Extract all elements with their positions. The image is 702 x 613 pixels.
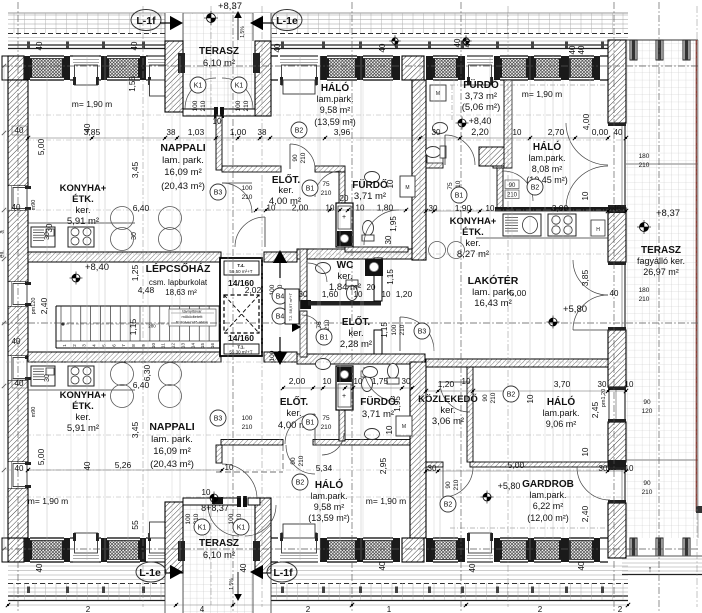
partition walls upper apartment A	[216, 80, 426, 260]
svg-text:3,71 m²: 3,71 m²	[362, 409, 394, 420]
svg-text:+8,40: +8,40	[85, 262, 109, 273]
svg-text:10: 10	[625, 464, 634, 473]
wall south (left section)	[8, 533, 172, 562]
wall north (left section)	[8, 56, 172, 85]
corridor arrows	[273, 250, 301, 365]
svg-text:14: 14	[190, 343, 195, 349]
svg-text:4: 4	[200, 605, 205, 613]
bottom eaves band	[8, 566, 628, 601]
svg-text:180: 180	[639, 287, 650, 294]
svg-text:2,02: 2,02	[245, 285, 262, 295]
elevator shaft	[220, 258, 262, 356]
bottom dim numbers	[6, 603, 630, 613]
terrace top-center floor	[183, 14, 255, 109]
svg-text:+8,37: +8,37	[656, 208, 680, 219]
svg-text:pm120: pm120	[31, 298, 37, 315]
wall east	[608, 40, 626, 558]
svg-text:75: 75	[322, 415, 330, 422]
svg-text:16: 16	[210, 343, 215, 349]
svg-text:1,95: 1,95	[393, 396, 402, 412]
svg-text:210: 210	[242, 194, 253, 201]
reference circles	[190, 77, 543, 535]
svg-text:B1: B1	[455, 193, 464, 200]
svg-text:1,25: 1,25	[130, 264, 140, 281]
svg-text:38: 38	[167, 128, 176, 137]
terrace top walls	[165, 13, 271, 118]
svg-text:lam. park.: lam. park.	[162, 155, 204, 166]
svg-text:2: 2	[306, 605, 311, 613]
svg-text:2: 2	[86, 605, 91, 613]
kitchen upper-left	[28, 207, 182, 251]
svg-text:75: 75	[316, 321, 323, 329]
svg-text:fagyálló ker.: fagyálló ker.	[637, 256, 685, 266]
svg-text:30: 30	[598, 380, 607, 389]
svg-text:16,09 m²: 16,09 m²	[164, 167, 202, 178]
svg-text:5,00: 5,00	[36, 138, 46, 155]
svg-text:16,43 m²: 16,43 m²	[474, 298, 512, 309]
svg-text:5,91 m²: 5,91 m²	[67, 423, 99, 434]
svg-text:3,73 m²: 3,73 m²	[465, 91, 497, 102]
svg-text:LAKÓTÉR: LAKÓTÉR	[468, 274, 519, 287]
svg-text:40: 40	[577, 45, 586, 54]
stairwell stairs	[56, 306, 220, 348]
svg-text:lam.park.: lam.park.	[316, 94, 353, 104]
svg-text:10: 10	[356, 204, 365, 213]
svg-text:lam.park.: lam.park.	[310, 491, 347, 501]
svg-text:ker.: ker.	[286, 408, 301, 419]
svg-text:1,95: 1,95	[389, 216, 398, 232]
wc fixtures upper	[316, 263, 359, 301]
svg-text:B4: B4	[276, 314, 285, 321]
svg-text:10: 10	[354, 377, 363, 386]
svg-text:3,96: 3,96	[334, 127, 351, 137]
svg-text:2,40: 2,40	[39, 297, 49, 314]
dimension rows	[12, 38, 653, 572]
svg-text:K1: K1	[235, 83, 244, 90]
svg-text:FÜRDŐ: FÜRDŐ	[360, 395, 396, 408]
svg-text:1,20: 1,20	[438, 379, 455, 389]
svg-text:m90: m90	[31, 200, 37, 211]
svg-text:távnyitóvar: távnyitóvar	[182, 309, 202, 314]
svg-text:12: 12	[171, 343, 176, 349]
svg-text:6,10 m²: 6,10 m²	[203, 550, 235, 561]
svg-text:8+8,37: 8+8,37	[201, 503, 229, 513]
svg-text:működtetett: működtetett	[182, 314, 204, 319]
terrace bottom walls	[165, 496, 276, 613]
svg-text:ker.: ker.	[337, 271, 352, 282]
svg-text:30: 30	[432, 128, 441, 137]
svg-text:NAPPALI: NAPPALI	[160, 142, 205, 154]
bathroom fixtures lower C	[361, 367, 399, 440]
left margin chain	[0, 64, 6, 551]
svg-text:20: 20	[367, 283, 376, 292]
svg-text:10: 10	[625, 380, 634, 389]
svg-text:3,06 m²: 3,06 m²	[432, 416, 464, 427]
svg-text:1: 1	[387, 605, 392, 613]
svg-text:6,40: 6,40	[133, 203, 150, 213]
svg-text:9,58 m²: 9,58 m²	[314, 502, 345, 512]
svg-text:120: 120	[642, 408, 653, 415]
svg-text:ÉTK.: ÉTK.	[72, 194, 94, 205]
svg-text:pm1,20: pm1,20	[601, 389, 607, 407]
svg-text:KONYHA+: KONYHA+	[60, 183, 107, 194]
svg-text:100: 100	[235, 100, 242, 111]
svg-text:180: 180	[639, 153, 650, 160]
svg-text:2,40: 2,40	[580, 505, 590, 522]
svg-text:B2: B2	[507, 392, 516, 399]
svg-text:KÖZLEKEDŐ: KÖZLEKEDŐ	[418, 393, 478, 405]
svg-text:210: 210	[490, 392, 497, 403]
svg-text:30: 30	[428, 464, 437, 473]
svg-text:1,15: 1,15	[128, 318, 138, 335]
svg-text:2,20: 2,20	[471, 127, 489, 137]
svg-text:30: 30	[45, 223, 54, 232]
svg-text:10: 10	[486, 204, 495, 213]
svg-text:1,03: 1,03	[188, 127, 205, 137]
svg-text:40: 40	[378, 43, 387, 52]
svg-text:1,80: 1,80	[377, 203, 394, 213]
partition walls upper apartment B	[426, 80, 608, 212]
svg-text:2: 2	[618, 605, 623, 613]
svg-text:90: 90	[292, 154, 299, 162]
svg-text:210: 210	[321, 424, 332, 431]
svg-text:100: 100	[242, 185, 253, 192]
svg-text:B1: B1	[306, 186, 315, 193]
partition walls lower apartment B rooms	[426, 359, 608, 467]
svg-text:210: 210	[321, 190, 332, 197]
svg-text:ker.: ker.	[440, 405, 455, 416]
svg-text:K1: K1	[198, 525, 207, 532]
svg-text:GARDROB: GARDROB	[522, 479, 574, 490]
svg-text:B2: B2	[295, 128, 304, 135]
svg-text:L-1e: L-1e	[276, 15, 298, 27]
svg-text:ker.: ker.	[278, 185, 293, 196]
svg-text:3,45: 3,45	[130, 421, 140, 438]
svg-text:40: 40	[15, 379, 24, 388]
svg-text:210: 210	[639, 296, 650, 303]
svg-text:90: 90	[482, 394, 489, 402]
svg-text:B3: B3	[214, 190, 223, 197]
svg-text:L-1e: L-1e	[139, 567, 161, 579]
extension lines	[47, 56, 590, 560]
svg-text:KONYHA+: KONYHA+	[450, 216, 497, 227]
svg-text:m= 1,90 m: m= 1,90 m	[366, 496, 406, 506]
svg-text:40: 40	[15, 464, 24, 473]
svg-text:14/160: 14/160	[228, 333, 254, 343]
svg-text:10: 10	[462, 377, 471, 386]
top eaves band	[8, 13, 628, 49]
svg-text:40: 40	[12, 203, 21, 212]
svg-text:B1: B1	[306, 420, 315, 427]
svg-text:26,97 m²: 26,97 m²	[643, 267, 679, 277]
svg-text:9,06 m²: 9,06 m²	[546, 419, 577, 429]
svg-text:30: 30	[599, 464, 608, 473]
svg-text:40: 40	[453, 38, 462, 47]
svg-text:+5,80: +5,80	[498, 481, 521, 491]
svg-text:B3: B3	[214, 416, 223, 423]
svg-text:5,00: 5,00	[510, 288, 527, 298]
window sill boxes (wide west windows)	[150, 80, 171, 96]
svg-text:10: 10	[202, 488, 211, 497]
svg-text:ÉTK.: ÉTK.	[72, 401, 94, 412]
svg-text:100: 100	[192, 100, 199, 111]
svg-text:1,75: 1,75	[372, 376, 389, 386]
svg-text:1,60: 1,60	[322, 289, 339, 299]
svg-text:(5,06 m²): (5,06 m²)	[462, 102, 501, 113]
kitchen right (apartment B)	[429, 214, 609, 259]
svg-text:+8,37: +8,37	[218, 1, 242, 12]
svg-text:6,30: 6,30	[142, 364, 152, 381]
svg-text:ker.: ker.	[465, 238, 480, 249]
svg-text:L-1f: L-1f	[273, 567, 293, 579]
svg-text:210: 210	[300, 152, 307, 163]
svg-text:lam.park.: lam.park.	[542, 408, 579, 418]
svg-text:ÉTK.: ÉTK.	[462, 227, 484, 238]
svg-text:B2: B2	[296, 480, 305, 487]
svg-text:280: 280	[148, 324, 156, 329]
svg-text:TERASZ: TERASZ	[199, 46, 239, 57]
svg-text:40: 40	[613, 204, 622, 213]
svg-text:100: 100	[185, 513, 192, 524]
svg-text:lam.park.: lam.park.	[528, 153, 565, 163]
elot lower fixtures	[316, 359, 331, 370]
slab band lower	[28, 352, 425, 364]
svg-text:10: 10	[513, 128, 522, 137]
svg-text:T.2. 58,97 m²+T: T.2. 58,97 m²+T	[288, 292, 293, 321]
svg-text:B3: B3	[418, 329, 427, 336]
svg-text:16,09 m²: 16,09 m²	[153, 446, 191, 457]
svg-text:10: 10	[581, 191, 590, 200]
svg-text:TERASZ: TERASZ	[199, 538, 239, 549]
svg-text:0,00: 0,00	[592, 127, 609, 137]
svg-text:55: 55	[130, 520, 140, 530]
svg-text:100: 100	[391, 324, 398, 335]
svg-text:2,00: 2,00	[292, 203, 309, 213]
svg-text:4,48: 4,48	[138, 285, 155, 295]
svg-text:3,00: 3,00	[552, 203, 569, 213]
svg-text:40: 40	[35, 563, 44, 572]
svg-text:20: 20	[340, 194, 349, 203]
slope arrows	[229, 11, 246, 601]
svg-text:M: M	[405, 185, 409, 191]
svg-text:10: 10	[385, 425, 394, 434]
svg-text:(13,59 m²): (13,59 m²)	[314, 117, 356, 127]
bathroom fixtures upper A	[362, 172, 415, 246]
svg-text:210: 210	[298, 455, 305, 466]
svg-text:15: 15	[200, 343, 205, 349]
svg-text:T.4.: T.4.	[237, 263, 244, 268]
svg-text:(12,00 m²): (12,00 m²)	[527, 513, 569, 523]
svg-text:füstelvezető ablak: füstelvezető ablak	[176, 320, 208, 325]
svg-text:40: 40	[83, 461, 92, 470]
svg-text:40: 40	[130, 41, 139, 50]
svg-text:90: 90	[643, 399, 651, 406]
svg-text:NAPPALI: NAPPALI	[149, 421, 194, 433]
svg-text:10: 10	[151, 343, 156, 349]
door arcs interior	[222, 123, 610, 500]
svg-text:40: 40	[468, 563, 477, 572]
svg-text:B1: B1	[320, 335, 329, 342]
svg-text:210: 210	[507, 193, 518, 199]
svg-text:210: 210	[642, 489, 653, 496]
svg-text:ker.: ker.	[348, 328, 363, 339]
svg-text:m= 1,90 m: m= 1,90 m	[28, 496, 68, 506]
svg-text:40: 40	[378, 561, 387, 570]
svg-text:TERASZ: TERASZ	[641, 245, 681, 256]
svg-text:2,28 m²: 2,28 m²	[340, 339, 372, 350]
svg-text:+5,80: +5,80	[563, 304, 587, 315]
kitchen lower-left	[28, 363, 182, 408]
svg-text:K1: K1	[237, 525, 246, 532]
svg-text:csm. lapburkolat: csm. lapburkolat	[149, 278, 208, 287]
svg-text:210: 210	[200, 100, 207, 111]
svg-text:3,85: 3,85	[580, 269, 590, 286]
svg-text:30: 30	[299, 290, 308, 299]
svg-text:FÜRDŐ: FÜRDŐ	[352, 178, 388, 191]
svg-text:KONYHA+: KONYHA+	[60, 390, 107, 401]
section markers top	[131, 10, 302, 31]
partition walls middle column	[300, 249, 383, 357]
svg-text:WC: WC	[337, 260, 354, 271]
svg-text:1,5%: 1,5%	[240, 26, 246, 38]
svg-text:9,58 m²: 9,58 m²	[320, 105, 351, 115]
svg-text:30: 30	[384, 235, 393, 244]
svg-text:m= 1,90 m: m= 1,90 m	[522, 89, 562, 99]
svg-text:30: 30	[429, 204, 438, 213]
svg-text:2,45: 2,45	[590, 401, 600, 418]
svg-text:90: 90	[509, 183, 516, 189]
terrace bottom-center floor	[183, 505, 255, 613]
svg-text:(20,43 m²): (20,43 m²)	[161, 181, 205, 192]
wall west	[2, 56, 31, 562]
svg-text:↑: ↑	[648, 564, 653, 574]
svg-text:100: 100	[242, 415, 253, 422]
svg-text:90: 90	[290, 457, 297, 465]
svg-text:lam. park.: lam. park.	[472, 287, 514, 298]
svg-text:HÁLÓ: HÁLÓ	[315, 478, 344, 491]
svg-text:10: 10	[526, 394, 535, 403]
svg-text:+8,40: +8,40	[469, 116, 492, 126]
svg-text:40: 40	[273, 43, 282, 52]
svg-text:ELŐT.: ELŐT.	[280, 395, 309, 408]
svg-text:38: 38	[258, 128, 267, 137]
svg-text:m90: m90	[31, 407, 37, 418]
svg-text:40: 40	[15, 126, 24, 135]
level markers	[28, 1, 680, 513]
svg-text:10: 10	[225, 463, 234, 472]
wall south (right section)	[270, 533, 608, 562]
svg-text:11: 11	[161, 343, 166, 348]
svg-text:10: 10	[581, 447, 590, 456]
svg-text:ker.: ker.	[75, 205, 90, 216]
svg-text:2: 2	[538, 605, 543, 613]
svg-text:10: 10	[354, 290, 363, 299]
svg-text:40: 40	[35, 41, 44, 50]
svg-text:5,91 m²: 5,91 m²	[67, 216, 99, 227]
svg-text:lam. park.: lam. park.	[151, 434, 193, 445]
svg-text:210: 210	[639, 162, 650, 169]
svg-text:90: 90	[643, 480, 651, 487]
room labels	[60, 46, 685, 561]
svg-text:6,22 m²: 6,22 m²	[533, 501, 564, 511]
svg-text:10: 10	[267, 204, 276, 213]
svg-text:75: 75	[447, 182, 454, 190]
svg-text:K1: K1	[194, 83, 203, 90]
bathroom fixtures lower B (furdo 3,71)	[363, 364, 413, 437]
svg-text:L-1f: L-1f	[136, 15, 156, 27]
svg-text:40: 40	[239, 563, 248, 572]
wall north (right section)	[270, 56, 608, 85]
svg-text:8,08 m²: 8,08 m²	[532, 164, 563, 174]
svg-text:B2: B2	[444, 502, 453, 509]
svg-text:3,71 m²: 3,71 m²	[354, 191, 386, 202]
svg-text:40: 40	[577, 561, 586, 570]
svg-text:40: 40	[83, 123, 92, 132]
svg-text:30: 30	[44, 374, 51, 382]
svg-text:(20,43 m²): (20,43 m²)	[150, 459, 194, 470]
svg-text:2,00: 2,00	[289, 376, 306, 386]
svg-text:HÁLÓ: HÁLÓ	[547, 395, 576, 408]
svg-text:210: 210	[242, 424, 253, 431]
T2 box left of elevator	[285, 289, 299, 324]
svg-text:90: 90	[445, 481, 452, 489]
svg-text:30: 30	[402, 377, 411, 386]
svg-text:lam.park.: lam.park.	[529, 490, 566, 500]
svg-text:1,90: 1,90	[455, 203, 472, 213]
svg-text:210: 210	[453, 479, 460, 490]
partition walls lower apartment C	[212, 362, 426, 538]
svg-text:1,20: 1,20	[396, 289, 413, 299]
svg-text:H: H	[596, 227, 600, 233]
svg-text:10: 10	[213, 117, 222, 126]
section markers bottom	[136, 562, 297, 582]
svg-text:210: 210	[399, 324, 406, 335]
svg-text:5,34: 5,34	[316, 463, 333, 473]
svg-text:LÉPCSŐHÁZ: LÉPCSŐHÁZ	[146, 262, 211, 275]
svg-text:3,70: 3,70	[554, 379, 571, 389]
svg-text:4,00: 4,00	[581, 113, 591, 130]
svg-text:40: 40	[568, 45, 577, 54]
svg-text:B2: B2	[531, 185, 540, 192]
svg-text:1,55: 1,55	[128, 76, 137, 92]
svg-text:40: 40	[610, 289, 619, 298]
terrace right floor	[622, 40, 702, 575]
svg-text:3,45: 3,45	[130, 161, 140, 178]
bathroom fixtures upper B	[426, 85, 448, 158]
svg-text:6,10 m²: 6,10 m²	[203, 58, 235, 69]
slab band upper	[28, 249, 425, 262]
svg-text:1,00: 1,00	[230, 127, 247, 137]
svg-text:+: +	[342, 393, 346, 400]
svg-text:M: M	[436, 91, 440, 97]
svg-text:18,63 m²: 18,63 m²	[165, 288, 197, 297]
svg-text:40: 40	[463, 38, 472, 47]
svg-text:m= 1,90 m: m= 1,90 m	[72, 99, 112, 109]
svg-text:8,27 m²: 8,27 m²	[457, 249, 489, 260]
svg-text:1,5%: 1,5%	[229, 578, 235, 590]
svg-text:10: 10	[323, 377, 332, 386]
svg-text:5,00: 5,00	[508, 460, 525, 470]
svg-text:ELŐT.: ELŐT.	[342, 315, 371, 328]
svg-text:75: 75	[322, 181, 330, 188]
svg-text:10: 10	[386, 179, 395, 188]
svg-text:40: 40	[12, 337, 21, 346]
svg-text:HÁLÓ: HÁLÓ	[321, 81, 350, 94]
svg-text:FÜRDŐ: FÜRDŐ	[463, 78, 499, 91]
svg-text:10: 10	[382, 290, 391, 299]
svg-text:1,15: 1,15	[380, 322, 389, 338]
svg-text:5,00: 5,00	[36, 448, 46, 465]
